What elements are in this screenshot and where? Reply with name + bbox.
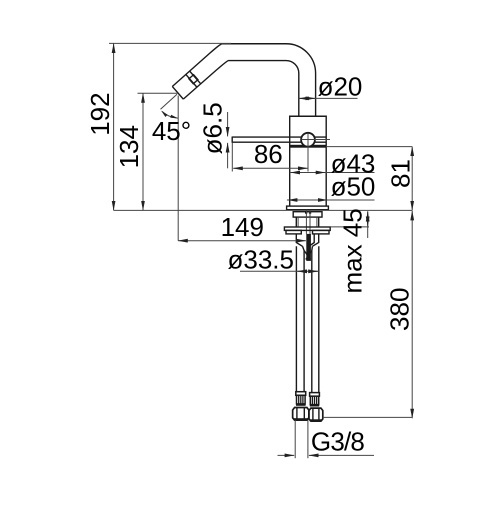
washer (284, 227, 330, 230)
countertop line (114, 209, 413, 211)
extension line top (192) (109, 42, 231, 44)
svg-text:45°: 45° (152, 116, 191, 146)
svg-text:ø6.5: ø6.5 (198, 102, 228, 154)
45 deg vertical extension line (177, 96, 179, 241)
dim 86 (233, 167, 307, 169)
funnel below nut (296, 234, 302, 246)
seam extension line to 81 (326, 146, 412, 148)
hose nut extension to 380 (323, 416, 412, 418)
neck (295, 217, 297, 227)
dim o6.5 (227, 112, 229, 136)
dim max45 (367, 211, 369, 238)
dim o20 (299, 97, 358, 99)
svg-text:192: 192 (85, 92, 115, 135)
pivot circle (301, 133, 315, 147)
right hose crimp ring (310, 393, 320, 397)
svg-text:max 45: max 45 (338, 208, 368, 293)
svg-text:ø50: ø50 (331, 171, 376, 201)
45 deg arc with arrows (162, 111, 178, 118)
lever rod (232, 136, 326, 138)
left hose crimp ring (296, 392, 306, 396)
threaded rod (305, 210, 307, 234)
faucet body (290, 116, 327, 206)
left hose crimp body (297, 395, 306, 404)
dim o50 (287, 199, 375, 201)
svg-text:380: 380 (384, 288, 414, 331)
svg-text:149: 149 (221, 212, 264, 242)
washer extension to max45 (331, 226, 369, 228)
45 deg axis extension line (161, 94, 178, 109)
extension line aerator level (134) (138, 92, 178, 94)
shank (293, 212, 322, 217)
dim 134 line (142, 93, 144, 210)
dim G3/8 arrows (278, 454, 295, 456)
left hose nut (293, 408, 309, 421)
dim 81 (411, 147, 413, 211)
svg-text:G3/8: G3/8 (311, 427, 365, 457)
G3/8 extension lines (294, 420, 296, 458)
svg-text:134: 134 (114, 125, 144, 168)
aerator tip details (172, 71, 201, 99)
svg-text:ø20: ø20 (318, 72, 363, 102)
base plate (287, 206, 329, 210)
axis extension below circle (307, 146, 309, 172)
right hose crimp body (310, 396, 318, 404)
nut left (286, 230, 301, 234)
lever tip extension line (231, 143, 233, 172)
svg-text:ø33.5: ø33.5 (228, 244, 295, 274)
wire spout tube body (faucet spout) (172, 44, 315, 117)
dim 149 (178, 240, 306, 242)
right hose nut (309, 408, 323, 421)
seam band (290, 145, 327, 148)
svg-text:81: 81 (386, 159, 416, 188)
hoses (295, 246, 297, 391)
nut right (313, 230, 330, 234)
dim o43 (290, 172, 375, 174)
dim 192 line (113, 43, 115, 210)
dim 380 (411, 211, 413, 418)
dim o33.5 (240, 270, 319, 272)
svg-text:86: 86 (254, 139, 283, 169)
